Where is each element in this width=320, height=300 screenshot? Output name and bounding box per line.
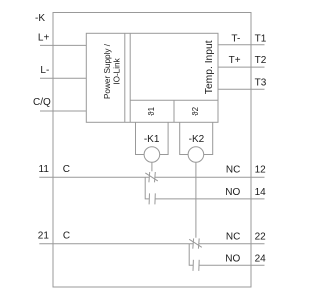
wire 21 C left segment	[39, 243, 193, 245]
relay coil K2	[188, 147, 204, 163]
device frame -K	[53, 13, 251, 288]
svg-text:22: 22	[255, 232, 267, 243]
svg-text:ϑ1: ϑ1	[147, 106, 156, 115]
svg-text:T-: T-	[231, 34, 240, 45]
module horizontal divider	[130, 99, 218, 101]
divider between theta1 and theta2 cells	[173, 100, 175, 122]
svg-text:ϑ2: ϑ2	[191, 106, 200, 115]
wire T- / T1	[218, 44, 265, 46]
svg-text:21: 21	[38, 230, 50, 241]
NO contact K1 right plate	[154, 193, 156, 204]
relay K2 frame left wire	[180, 122, 188, 154]
module inner divider line b	[129, 33, 131, 122]
svg-text:C/Q: C/Q	[33, 97, 51, 108]
NC contact K2 left plate	[192, 238, 195, 248]
svg-text:L-: L-	[40, 65, 49, 76]
wire L-	[40, 77, 86, 79]
svg-text:C: C	[63, 230, 70, 241]
svg-text:NO: NO	[225, 187, 240, 198]
NO contact K1 left plate	[148, 193, 150, 204]
NC contact K1 right plate	[154, 172, 157, 182]
NC contact K1 slash	[145, 173, 158, 181]
wire NC 22 right segment	[199, 243, 265, 245]
NC contact K2 slash	[189, 239, 202, 247]
svg-text:11: 11	[39, 164, 50, 175]
NO branch wire 21 to 24	[189, 244, 193, 266]
svg-text:L+: L+	[38, 33, 50, 44]
relay coil K1	[144, 147, 160, 163]
wire T+ / T2	[218, 66, 265, 68]
svg-text:-K1: -K1	[144, 134, 160, 145]
svg-text:Temp. Input: Temp. Input	[204, 40, 215, 94]
svg-text:-K2: -K2	[189, 134, 205, 145]
relay K1 frame right wire	[160, 122, 168, 154]
module box U1 outline	[86, 33, 218, 122]
module inner divider line a	[124, 33, 126, 122]
svg-text:NO: NO	[225, 254, 240, 265]
NC contact K1 left plate	[148, 172, 151, 182]
wire NO 14	[155, 198, 264, 200]
svg-text:T3: T3	[255, 78, 267, 89]
svg-text:24: 24	[255, 254, 267, 265]
svg-text:NC: NC	[226, 165, 240, 176]
NO contact K2 right plate	[198, 260, 200, 271]
svg-text:T+: T+	[229, 55, 241, 66]
svg-text:-K: -K	[35, 13, 45, 24]
NO branch wire 11 to 14	[145, 177, 149, 199]
wire NC 12 right segment	[155, 176, 265, 178]
wire T3	[218, 88, 265, 90]
svg-text:C: C	[63, 164, 70, 175]
svg-text:12: 12	[255, 165, 267, 176]
relay K2 frame right wire	[204, 122, 213, 154]
svg-text:T2: T2	[255, 55, 267, 66]
NO contact K2 left plate	[192, 260, 194, 271]
relay K1 frame left wire	[136, 122, 145, 154]
svg-text:NC: NC	[226, 232, 240, 243]
wire NO 24	[199, 264, 265, 266]
K1 coil to contact stub	[151, 162, 153, 171]
NC contact K2 right plate	[197, 238, 200, 248]
svg-text:T1: T1	[255, 34, 267, 45]
svg-text:14: 14	[255, 187, 267, 198]
K2 coil to contact stub	[195, 162, 197, 237]
wire 11 C left segment	[39, 176, 149, 178]
wire L+	[40, 44, 86, 46]
wire C/Q	[40, 110, 86, 112]
